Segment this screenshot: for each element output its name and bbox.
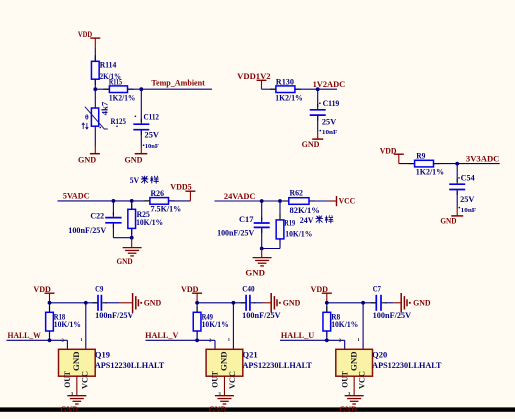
junction VDD/pin (Q19)	[84, 301, 88, 305]
title 24V sampling (chinese)	[300, 215, 334, 224]
svg-text:VCC: VCC	[228, 371, 237, 389]
svg-text:100nF/25V: 100nF/25V	[68, 226, 106, 235]
svg-text:GND: GND	[302, 140, 320, 149]
svg-text:HALL_V: HALL_V	[145, 331, 179, 340]
resistor R130	[276, 86, 295, 93]
wire node B to C112	[140, 89, 142, 121]
node G junction (R19)	[278, 199, 282, 203]
pin dot C112-1	[135, 116, 137, 118]
wire R19 to bottom	[279, 239, 281, 249]
wire net HALL_U	[280, 339, 345, 341]
svg-text:7.5K/1%: 7.5K/1%	[151, 205, 182, 214]
pin dot C119-2	[320, 130, 322, 132]
wire R8 to HALL_U	[326, 331, 328, 340]
wire node G to R19	[279, 201, 281, 220]
wire into pin 2 (Q21)	[214, 340, 216, 349]
wire C119 to GND	[317, 116, 319, 132]
svg-text:VDD: VDD	[181, 285, 199, 294]
wire C22 to bottom	[112, 224, 114, 238]
svg-text:R9: R9	[416, 151, 425, 160]
power stub GND bottom (Q20)	[353, 376, 355, 395]
svg-text:HALL_W: HALL_W	[8, 331, 41, 340]
wire node D to R25	[131, 201, 133, 209]
hall sensor Q19 APS12230LLHALT	[59, 349, 96, 376]
power stub GND 3	[317, 131, 319, 139]
capacitor C112	[133, 123, 149, 125]
svg-text:APS12230LLHALT: APS12230LLHALT	[95, 361, 165, 370]
pin dot C54-1	[458, 177, 460, 179]
power port VDD	[78, 30, 100, 48]
wire into pin 2 (Q19)	[66, 340, 68, 349]
ground earth 5V	[123, 248, 142, 256]
sheet border bar	[0, 407, 515, 411]
wire VDD to R49	[196, 303, 198, 313]
wire C112 to GND	[140, 131, 142, 147]
svg-text:C9: C9	[95, 284, 103, 293]
svg-text:25V: 25V	[145, 131, 160, 140]
svg-text:GND: GND	[78, 156, 96, 165]
svg-text:VCC: VCC	[358, 371, 367, 389]
capacitor C9	[97, 295, 99, 311]
wire R49 to HALL_V	[196, 331, 198, 340]
svg-text:25V: 25V	[460, 195, 475, 204]
power stub GND 2	[140, 146, 142, 154]
wire C40 to GND	[254, 302, 263, 304]
ground GND under C119	[302, 139, 324, 149]
svg-text:Temp_Ambient: Temp_Ambient	[151, 78, 205, 87]
svg-text:Q21: Q21	[243, 351, 258, 360]
svg-text:10K/1%: 10K/1%	[285, 229, 312, 238]
node C junction (C22)	[112, 199, 116, 203]
wire R25 to bottom	[131, 228, 133, 237]
node 1V2ADC junction	[316, 87, 320, 91]
hall sensor Q20 APS12230LLHALT	[336, 349, 373, 376]
svg-text:10K/1%: 10K/1%	[54, 320, 81, 329]
wire R62 to VCC	[309, 200, 329, 202]
power stub GND bottom (Q19)	[76, 376, 78, 395]
svg-text:APS12230LLHALT: APS12230LLHALT	[243, 361, 313, 370]
wire node C to C22	[112, 201, 114, 215]
wire bottom rail 5V	[113, 237, 131, 239]
svg-text:θ: θ	[85, 114, 89, 122]
pin dot R125-1	[100, 127, 102, 129]
svg-text:APS12230LLHALT: APS12230LLHALT	[372, 361, 442, 370]
power port VDD (Q19)	[33, 285, 54, 303]
svg-text:10K/1%: 10K/1%	[202, 320, 229, 329]
svg-text:5VADC: 5VADC	[63, 191, 90, 200]
power port VDD1V2	[237, 72, 270, 89]
power wire GND (Q20)	[393, 302, 401, 304]
wire node A to thermistor	[94, 89, 96, 108]
svg-text:R130: R130	[276, 77, 294, 86]
node B junction	[139, 87, 143, 91]
wire thermistor to GND	[94, 126, 96, 146]
junction VDD/pin (Q20)	[361, 301, 365, 305]
wire node F to C17	[261, 201, 263, 221]
thermistor R125	[82, 107, 108, 129]
wire C9 to GND	[105, 302, 119, 304]
svg-text:VDD: VDD	[380, 146, 397, 155]
svg-text:100nF/25V: 100nF/25V	[95, 311, 134, 320]
svg-text:HALL_U: HALL_U	[281, 331, 315, 340]
junction HALL_V/R49	[195, 338, 199, 342]
svg-text:VDD: VDD	[78, 30, 92, 39]
svg-text:5V: 5V	[130, 176, 140, 185]
wire C7 to GND	[385, 302, 393, 304]
junction HALL_U/R8	[325, 338, 329, 342]
wire pin 1 (Q21)	[232, 303, 234, 350]
svg-text:GND: GND	[125, 156, 143, 165]
wire C17 to bottom	[261, 228, 263, 248]
resistor R18	[46, 312, 54, 331]
node F junction (C17)	[260, 199, 264, 203]
power stub GND 4	[456, 208, 458, 216]
wire VDD rail (Q21)	[197, 302, 246, 304]
svg-text:4k7: 4k7	[101, 102, 110, 116]
wire pin 1 (Q20)	[362, 303, 364, 350]
svg-text:24V: 24V	[300, 216, 314, 225]
wire R9 to 3V3ADC	[434, 163, 500, 165]
svg-text:GND: GND	[283, 299, 301, 308]
ground earth right (Q20)	[401, 293, 410, 313]
wire junction to C119	[317, 89, 319, 107]
svg-text:82K/1%: 82K/1%	[290, 206, 320, 215]
svg-text:GND: GND	[245, 268, 265, 277]
svg-text:100nF/25V: 100nF/25V	[373, 311, 412, 320]
title 5V sampling (chinese)	[130, 176, 159, 185]
node D junction (R25)	[130, 199, 134, 203]
node 3V3ADC junction	[455, 162, 459, 166]
power port VDD5	[170, 182, 195, 201]
ground earth bottom (Q21)	[215, 396, 234, 404]
capacitor C7	[375, 295, 377, 311]
resistor R25	[128, 209, 136, 228]
wire net HALL_W	[7, 339, 68, 341]
svg-text:3V3ADC: 3V3ADC	[466, 155, 500, 164]
wire R115 to node B	[128, 88, 142, 90]
svg-text:GND: GND	[117, 257, 133, 266]
power wire GND (Q19)	[119, 302, 133, 304]
svg-text:C22: C22	[90, 212, 104, 221]
wire node A to R115	[95, 88, 109, 90]
resistor R115	[109, 86, 127, 93]
svg-text:GND: GND	[413, 299, 431, 308]
power stub VCC	[329, 200, 337, 202]
svg-text:VDD1V2: VDD1V2	[237, 72, 270, 81]
svg-text:100nF/25V: 100nF/25V	[217, 229, 254, 238]
svg-text:C40: C40	[242, 284, 254, 293]
ground GND under R125	[78, 154, 100, 165]
power port VCC	[337, 196, 356, 206]
ground earth bottom (Q19)	[67, 396, 86, 404]
svg-text:Q20: Q20	[372, 351, 387, 360]
svg-text:10nF: 10nF	[322, 129, 338, 136]
node H junction (gnd)	[260, 247, 264, 251]
svg-text:OUT: OUT	[211, 370, 220, 387]
svg-text:10nF: 10nF	[145, 143, 159, 150]
junction HALL_W/R18	[48, 338, 52, 342]
svg-text:1K2/1%: 1K2/1%	[416, 168, 444, 177]
wire R130 to 1V2ADC	[295, 88, 337, 90]
svg-text:R26: R26	[151, 189, 165, 198]
wire R18 to HALL_W	[49, 331, 51, 340]
svg-text:R114: R114	[100, 61, 117, 70]
svg-text:R125: R125	[111, 117, 127, 126]
wire Temp_Ambient	[141, 88, 212, 90]
wire pin 1 (Q19)	[85, 303, 87, 350]
svg-text:GND: GND	[144, 299, 162, 308]
capacitor C119	[310, 109, 326, 111]
svg-text:C112: C112	[144, 112, 160, 121]
svg-text:1K2/1%: 1K2/1%	[109, 93, 135, 102]
svg-text:VDD: VDD	[311, 285, 329, 294]
wire C54 to GND	[456, 190, 458, 208]
svg-text:GND: GND	[209, 405, 227, 414]
power stub GND 1	[94, 146, 96, 154]
svg-text:VCC: VCC	[339, 196, 356, 205]
svg-text:GND: GND	[72, 351, 81, 371]
node E junction (gnd)	[130, 236, 134, 240]
svg-text:VCC: VCC	[80, 371, 89, 389]
ground earth right (Q19)	[133, 293, 143, 313]
svg-text:100nF/25V: 100nF/25V	[242, 311, 281, 320]
power port VDD (3V3)	[380, 146, 404, 163]
resistor R26	[150, 198, 169, 205]
pin dot C54-2	[459, 207, 461, 209]
wire VDD rail (Q20)	[327, 302, 377, 304]
wire 24VADC	[215, 200, 289, 202]
svg-text:R19: R19	[284, 218, 295, 227]
resistor R49	[193, 312, 201, 331]
wire R26 to VDD5	[169, 200, 191, 202]
capacitor C17	[254, 222, 270, 224]
power wire GND (Q21)	[263, 302, 272, 304]
power port VDD (Q21)	[181, 285, 202, 303]
junction VDD/pin (Q21)	[232, 301, 236, 305]
svg-text:VDD5: VDD5	[170, 182, 191, 191]
junction VDD/R49	[195, 301, 199, 305]
svg-text:VDD: VDD	[33, 285, 51, 294]
wire VDD to R8	[326, 303, 328, 313]
wire VDD1V2 to R130	[262, 88, 276, 90]
wire into pin 2 (Q20)	[344, 340, 346, 349]
resistor R9	[415, 160, 434, 167]
svg-text:10K/1%: 10K/1%	[136, 218, 163, 227]
svg-text:24VADC: 24VADC	[224, 192, 256, 201]
wire VDD rail (Q19)	[50, 302, 99, 304]
svg-text:10K/1%: 10K/1%	[331, 320, 358, 329]
power port VDD (Q20)	[311, 285, 332, 303]
wire VDD to R9	[399, 163, 415, 165]
svg-text:OUT: OUT	[340, 370, 349, 387]
wire R114 to node A	[94, 79, 96, 89]
hall sensor Q21 APS12230LLHALT	[206, 349, 243, 376]
ground earth right (Q21)	[271, 293, 280, 313]
ground GND under C54	[440, 216, 463, 226]
resistor R114	[91, 61, 99, 79]
resistor R8	[323, 312, 331, 331]
power stub GND bottom (Q21)	[223, 376, 225, 395]
svg-text:GND: GND	[339, 405, 357, 414]
svg-text:R62: R62	[290, 189, 303, 198]
svg-text:C7: C7	[373, 284, 381, 293]
svg-text:10nF: 10nF	[461, 207, 477, 214]
junction VDD/R8	[325, 301, 329, 305]
wire bottom rail 24V	[262, 248, 280, 250]
svg-text:GND: GND	[349, 351, 358, 371]
pin dot C112-2	[143, 144, 145, 146]
junction VDD/R18	[48, 301, 52, 305]
capacitor C22	[105, 217, 121, 219]
svg-text:C54: C54	[461, 174, 475, 183]
pin dot C119-1	[319, 102, 321, 104]
power stub GND 6	[261, 249, 263, 258]
svg-text:GND: GND	[220, 351, 229, 371]
wire 5VADC	[58, 200, 150, 202]
svg-text:GND: GND	[60, 405, 78, 414]
node A junction	[93, 87, 97, 91]
svg-text:C17: C17	[239, 215, 253, 224]
svg-text:1K2/1%: 1K2/1%	[275, 93, 303, 102]
power stub GND 5	[131, 238, 133, 247]
pin dot R125-2	[116, 126, 118, 128]
capacitor C54	[449, 183, 465, 185]
wire VDD to R114	[94, 48, 96, 61]
ground earth bottom (Q20)	[345, 396, 364, 404]
wire VDD to R18	[49, 303, 51, 313]
wire junction to C54	[456, 164, 458, 182]
svg-text:25V: 25V	[322, 117, 337, 126]
svg-text:OUT: OUT	[63, 370, 72, 387]
svg-text:R115: R115	[109, 77, 122, 86]
ground GND under C112	[125, 154, 148, 165]
resistor R19	[276, 220, 284, 239]
svg-text:C119: C119	[323, 99, 340, 108]
svg-text:GND: GND	[440, 217, 456, 226]
resistor R62	[289, 198, 309, 205]
ground earth 24V	[253, 258, 272, 266]
svg-text:1V2ADC: 1V2ADC	[313, 80, 346, 89]
capacitor C40	[245, 295, 247, 311]
svg-text:Q19: Q19	[95, 351, 110, 360]
wire net HALL_V	[146, 339, 216, 341]
